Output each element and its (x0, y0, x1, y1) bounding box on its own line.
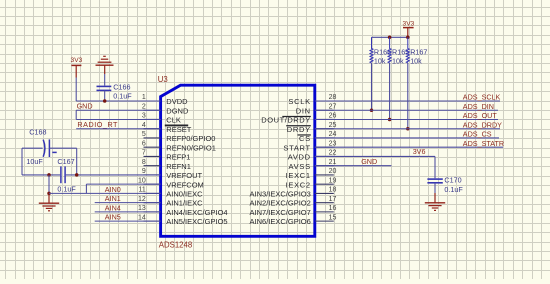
capacitor C166 (97, 86, 112, 90)
resistor R165 10k (388, 37, 391, 63)
svg-text:AIN5: AIN5 (105, 213, 121, 222)
svg-text:19: 19 (329, 177, 337, 184)
ground (inverted, above C166) (96, 56, 114, 74)
ground (right) (425, 193, 445, 210)
svg-text:12: 12 (138, 196, 146, 203)
wire VREFOUT pin9 net (66, 174, 161, 176)
svg-text:AIN6/IEXC/GPIO6: AIN6/IEXC/GPIO6 (250, 217, 311, 226)
svg-text:VREFOUT: VREFOUT (166, 171, 202, 180)
pin 13 AIN4/IEXC/GPIO4 (144, 211, 161, 213)
wire ADS_OUT net (315, 118, 498, 120)
svg-text:ADS_SCLK: ADS_SCLK (463, 93, 501, 102)
svg-text:C166: C166 (113, 82, 130, 91)
svg-text:6: 6 (142, 140, 146, 147)
svg-text:23: 23 (329, 140, 337, 147)
wire CLK pin3 (76, 118, 160, 120)
pin 9 VREFOUT (144, 174, 161, 176)
pin 26 DOUT/DRDY (315, 118, 334, 120)
wire GND drop (48, 175, 50, 193)
svg-text:AIN2/IEXC/GPIO2: AIN2/IEXC/GPIO2 (250, 199, 311, 208)
wire ADS_DRDY net (315, 128, 500, 130)
svg-text:C168: C168 (29, 128, 46, 137)
svg-text:13: 13 (138, 205, 146, 212)
svg-text:AVSS: AVSS (289, 162, 311, 171)
svg-text:0.1uF: 0.1uF (444, 185, 463, 194)
svg-text:REFN1: REFN1 (166, 162, 191, 171)
wire VREFCOM pin10 net (86, 183, 160, 185)
svg-text:3V3: 3V3 (71, 57, 83, 64)
junction R166/ADS_DIN (370, 108, 374, 112)
svg-text:VREFCOM: VREFCOM (166, 180, 204, 189)
svg-text:8: 8 (142, 159, 146, 166)
pin 6 REFN0/GPIO1 (144, 146, 161, 148)
svg-text:0.1uF: 0.1uF (57, 184, 76, 193)
svg-text:7: 7 (142, 150, 146, 157)
svg-text:26: 26 (329, 113, 337, 120)
wire RESET pin4 net (76, 128, 160, 130)
svg-text:27: 27 (329, 103, 337, 110)
svg-text:25: 25 (329, 122, 337, 129)
svg-text:10k: 10k (392, 56, 404, 65)
svg-text:GND: GND (77, 102, 93, 111)
svg-text:3V6: 3V6 (413, 147, 426, 156)
svg-text:ADS_OUT: ADS_OUT (463, 111, 498, 120)
svg-text:AIN1: AIN1 (105, 194, 121, 203)
svg-text:RADIO_RT: RADIO_RT (77, 120, 118, 129)
svg-text:15: 15 (329, 214, 337, 221)
junction GND tap on VREFOUT net (47, 173, 51, 177)
svg-text:AIN4: AIN4 (105, 203, 121, 212)
capacitor C170 (427, 179, 442, 183)
svg-text:C167: C167 (57, 157, 74, 166)
svg-text:REFP1: REFP1 (166, 153, 190, 162)
pin 19 IEXC2 (315, 183, 334, 185)
pin 5 REFP0/GPIO0 (144, 137, 161, 139)
svg-text:22: 22 (329, 150, 337, 157)
wire C166 to DVDD net (104, 90, 106, 101)
svg-text:IEXC1: IEXC1 (286, 171, 311, 180)
pin 15 AIN6/IEXC/GPIO6 (315, 220, 334, 222)
svg-text:U3: U3 (158, 75, 168, 84)
pin 22 AVDD (315, 155, 334, 157)
svg-text:AIN7/IEXC/GPIO7: AIN7/IEXC/GPIO7 (250, 208, 311, 217)
pin 27 DIN (315, 109, 334, 111)
polarity mark (C168) (52, 151, 56, 153)
svg-text:11: 11 (139, 187, 146, 194)
wire 3V3 rail (372, 36, 408, 38)
svg-text:AIN0: AIN0 (105, 185, 121, 194)
svg-text:IEXC2: IEXC2 (286, 180, 311, 189)
svg-text:16: 16 (329, 205, 337, 212)
svg-text:3V3: 3V3 (403, 21, 415, 28)
svg-text:21: 21 (329, 159, 337, 166)
svg-text:ADS_DIN: ADS_DIN (463, 102, 494, 111)
svg-text:3: 3 (142, 113, 146, 120)
svg-text:18: 18 (329, 187, 337, 194)
svg-text:9: 9 (142, 168, 146, 175)
pin 28 SCLK (315, 100, 334, 102)
wire C170 to ground (434, 183, 436, 193)
pin 8 REFN1 (144, 165, 161, 167)
pin 4 RESET (144, 128, 161, 130)
svg-text:REFP0/GPIO0: REFP0/GPIO0 (166, 134, 215, 143)
pin 12 AIN1/IEXC (144, 202, 161, 204)
svg-text:R166: R166 (374, 48, 391, 57)
wire ADS_CS net (315, 137, 499, 139)
svg-text:AIN0/IEXC: AIN0/IEXC (166, 190, 203, 199)
pin 16 AIN7/IEXC/GPIO7 (315, 211, 334, 213)
svg-text:14: 14 (138, 214, 146, 221)
pin 10 VREFCOM (144, 183, 161, 185)
wire AVDD down to C170 (434, 156, 436, 178)
svg-text:10: 10 (138, 177, 146, 184)
svg-text:ADS_DRDY: ADS_DRDY (463, 120, 502, 129)
wire C168 left lead (22, 147, 43, 149)
svg-text:SCLK: SCLK (288, 97, 310, 106)
wire pin2-pin3 tie (75, 110, 77, 119)
wire DGND pin2 (76, 109, 160, 111)
svg-text:C170: C170 (444, 175, 461, 184)
svg-text:AIN1/IEXC: AIN1/IEXC (166, 199, 203, 208)
junction C168/VREFOUT net (75, 173, 79, 177)
svg-text:R167: R167 (410, 48, 427, 57)
svg-text:START: START (283, 143, 310, 152)
svg-text:ADS_STATR: ADS_STATR (463, 139, 504, 148)
svg-text:AIN4/IEXC/GPIO4: AIN4/IEXC/GPIO4 (166, 208, 227, 217)
wire ADS_SCLK net (315, 100, 500, 102)
junction rail/R165 (388, 36, 392, 40)
ground (left) (39, 193, 59, 210)
svg-text:DIN: DIN (296, 106, 311, 115)
wire AVSS pin21 net (315, 165, 392, 167)
wire VREFOUT net left segment (22, 174, 60, 176)
svg-text:5: 5 (142, 131, 146, 138)
wire 3V3 stem to DVDD wire (75, 78, 77, 102)
pin 2 DGND (144, 109, 161, 111)
pin 18 AIN3/IEXC/GPIO3 (315, 192, 334, 194)
svg-text:GND: GND (361, 157, 377, 166)
svg-text:10k: 10k (374, 56, 386, 65)
junction R167/ADS_DRDY (406, 127, 410, 131)
wire VREFCOM tie to AIN0 net (85, 184, 87, 193)
wire ADS_STATR net (315, 146, 503, 148)
svg-text:0.1uF: 0.1uF (113, 92, 132, 101)
svg-text:ADS1248: ADS1248 (159, 240, 192, 249)
junction R165/ADS_OUT (388, 118, 392, 122)
svg-text:CLK: CLK (166, 116, 181, 125)
junction C166/DVDD (103, 99, 107, 103)
pin 17 AIN2/IEXC/GPIO2 (315, 202, 334, 204)
svg-text:AIN5/IEXC/GPIO5: AIN5/IEXC/GPIO5 (166, 217, 227, 226)
pin 24 CS (315, 137, 334, 139)
pin 11 AIN0/IEXC (144, 192, 161, 194)
op-amp U3 ADS1248 IC body (161, 85, 315, 236)
junction GND node AIN0 net (47, 192, 51, 196)
wire AIN0 pin11 net (49, 192, 161, 194)
pin 3 CLK (144, 118, 161, 120)
svg-text:17: 17 (329, 196, 337, 203)
wire ADS_DIN net (315, 109, 498, 111)
wire AIN4 pin13 net (95, 211, 161, 213)
wire C168 to VREFOUT net (76, 148, 78, 175)
wire AVDD pin22 net (315, 155, 435, 157)
svg-text:10uF: 10uF (26, 157, 43, 166)
svg-text:1: 1 (142, 94, 146, 101)
svg-text:28: 28 (329, 94, 337, 101)
svg-text:R165: R165 (392, 48, 409, 57)
svg-text:24: 24 (329, 131, 337, 138)
svg-text:DGND: DGND (166, 106, 189, 115)
pin 1 DVDD (144, 100, 161, 102)
resistor R167 10k (406, 37, 409, 63)
junction rail/R167 (406, 36, 410, 40)
svg-text:AIN3/IEXC/GPIO3: AIN3/IEXC/GPIO3 (250, 190, 311, 199)
wire AIN1 pin12 net (95, 202, 161, 204)
wire ground to C166 (104, 74, 106, 86)
pin 21 AVSS (315, 165, 334, 167)
resistor R166 10k (370, 37, 373, 63)
pin 25 DRDY (315, 128, 334, 130)
wire left vertical (21, 148, 23, 175)
svg-text:2: 2 (142, 103, 146, 110)
wire AIN5 pin14 net (95, 220, 161, 222)
wire DVDD pin1 net (76, 100, 160, 102)
pin 7 REFP1 (144, 155, 161, 157)
svg-text:10k: 10k (410, 56, 422, 65)
svg-text:REFN0/GPIO1: REFN0/GPIO1 (166, 143, 216, 152)
pin 23 START (315, 146, 334, 148)
svg-text:AVDD: AVDD (288, 153, 311, 162)
svg-text:ADS_CS: ADS_CS (463, 130, 492, 139)
wire C168 right lead (49, 147, 76, 149)
svg-text:20: 20 (329, 168, 337, 175)
svg-text:DVDD: DVDD (166, 97, 188, 106)
pin 20 IEXC1 (315, 174, 334, 176)
pin 14 AIN5/IEXC/GPIO5 (144, 220, 161, 222)
svg-text:4: 4 (142, 122, 146, 129)
